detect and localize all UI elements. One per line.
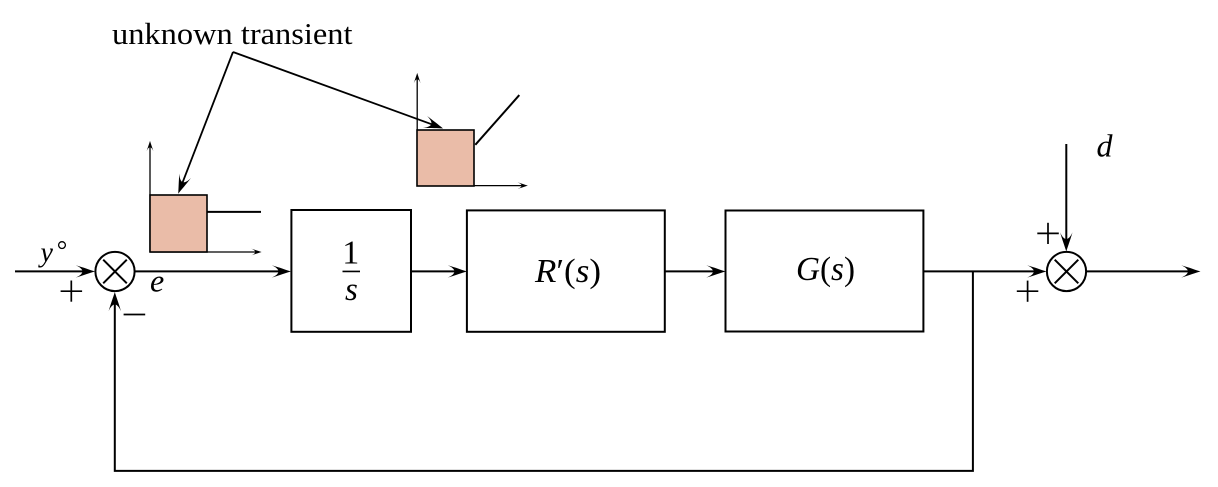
plus sign at summing junction S1 bbox=[61, 281, 83, 302]
transient sketch 1: vertical axis bbox=[147, 141, 154, 252]
svg-text:1: 1 bbox=[342, 235, 359, 272]
minus sign at S1 feedback input bbox=[124, 314, 146, 316]
output wire bbox=[1086, 265, 1200, 277]
svg-text:G(s): G(s) bbox=[796, 251, 855, 288]
leader arrow to transient sketch 2 bbox=[233, 52, 445, 134]
plus sign at S2 top input bbox=[1037, 223, 1059, 244]
svg-text:d: d bbox=[1097, 127, 1114, 163]
transient sketch 2: horizontal axis bbox=[417, 182, 528, 189]
block R'(s) bbox=[467, 210, 665, 331]
feedback wire from branch node down, across and up into S1 bbox=[109, 271, 973, 471]
block integrator 1/s bbox=[291, 210, 411, 332]
disturbance wire d into S2 bbox=[1060, 144, 1072, 252]
transient sketch 2: vertical axis bbox=[414, 73, 421, 186]
svg-text:unknown transient: unknown transient bbox=[112, 16, 353, 51]
block G(s) bbox=[726, 211, 924, 332]
wire R'(s) to G(s) bbox=[665, 265, 726, 277]
wire G(s) to summing junction S2 bbox=[923, 265, 1046, 277]
transient sketch 1: horizontal axis bbox=[150, 249, 262, 256]
input wire bbox=[15, 265, 95, 277]
plus sign at S2 left input bbox=[1017, 281, 1039, 302]
wire S1 to integrator block bbox=[135, 265, 291, 277]
label y degree bbox=[38, 237, 66, 268]
transient sketch 1: pink box bbox=[150, 195, 207, 252]
transient sketch 2: pink box bbox=[417, 130, 474, 186]
svg-text:y: y bbox=[38, 237, 54, 268]
transient sketch 1: signal line bbox=[207, 211, 261, 213]
svg-text:R′(s): R′(s) bbox=[534, 253, 601, 290]
summing junction S2 bbox=[1047, 252, 1086, 291]
summing junction S1 bbox=[95, 252, 134, 291]
svg-text:s: s bbox=[345, 272, 358, 308]
transient sketch 2: ramp signal line bbox=[475, 95, 519, 145]
leader arrow to transient sketch 1 bbox=[172, 52, 233, 196]
wire integrator to R'(s) bbox=[411, 265, 467, 277]
svg-text:e: e bbox=[150, 263, 164, 299]
